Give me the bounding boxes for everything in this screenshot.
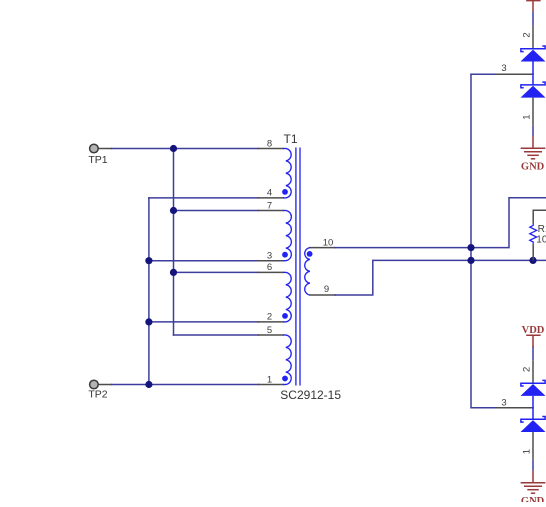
wire VDD stem top <box>532 12 534 26</box>
junction node F <box>145 381 152 388</box>
wire pin 10 net <box>335 198 546 248</box>
diode pair pin 2 stub top <box>532 26 534 49</box>
svg-text:7: 7 <box>267 200 272 211</box>
wire top clamp pin3 <box>471 73 497 75</box>
svg-text:VDD: VDD <box>522 325 545 336</box>
svg-text:SC2912-15: SC2912-15 <box>280 388 341 402</box>
wire GND stem top <box>532 125 534 136</box>
T1 pin 6 stub <box>259 271 284 273</box>
T1 pin 8 stub <box>259 148 284 150</box>
diode D1 bottom <box>521 380 545 386</box>
test point TP1 <box>90 144 99 153</box>
T1 winding 10-9 <box>305 248 310 295</box>
svg-text:2: 2 <box>522 367 533 372</box>
wire T1 pin 2 <box>149 321 259 323</box>
svg-text:TP2: TP2 <box>88 388 107 400</box>
wire T1 pin 6 <box>174 271 259 273</box>
wire clamp bus vertical <box>471 74 497 408</box>
power symbol VDD (top, clipped) <box>526 1 540 12</box>
svg-text:9: 9 <box>324 284 329 295</box>
diode pair pin 1 stub bottom <box>532 432 534 460</box>
svg-text:GND: GND <box>521 162 545 173</box>
T1 pin 4 stub <box>259 197 284 199</box>
test point TP2 <box>90 380 99 389</box>
diode pair pin 1 stub top <box>532 98 534 126</box>
svg-text:GND: GND <box>521 496 545 502</box>
junction node E <box>145 318 152 325</box>
wire T1 pin 5 <box>174 334 259 336</box>
wire GND stem bottom <box>532 460 534 471</box>
svg-text:3: 3 <box>267 251 272 262</box>
junction node D <box>145 257 152 264</box>
junction node A <box>170 145 177 152</box>
T1 pin 5 stub <box>259 334 284 336</box>
svg-text:2: 2 <box>267 312 272 323</box>
T1 pin 2 stub <box>259 321 284 323</box>
junction node G <box>467 244 474 251</box>
resistor R1 <box>533 210 546 224</box>
T1 winding 5-1 <box>286 335 291 385</box>
svg-text:6: 6 <box>267 262 272 273</box>
wire diode midpoint top <box>532 62 534 85</box>
svg-text:10: 10 <box>323 237 334 248</box>
junction node H <box>467 257 474 264</box>
wire TP1 to T1 pin 8 <box>99 148 112 150</box>
svg-text:1: 1 <box>522 115 533 120</box>
T1 winding 8-4 <box>286 149 291 198</box>
diode D1 top <box>521 46 545 52</box>
power symbol VDD (bottom) <box>526 335 540 347</box>
junction node I <box>529 257 536 264</box>
T1 pin 10 stub <box>310 247 335 249</box>
transformer T1 core <box>296 148 300 386</box>
svg-text:2: 2 <box>522 32 533 37</box>
svg-text:T1: T1 <box>284 132 298 146</box>
svg-text:5: 5 <box>267 325 272 336</box>
diode pair pin 2 stub bottom <box>532 360 534 383</box>
junction node B <box>170 207 177 214</box>
svg-text:1: 1 <box>267 374 272 385</box>
wire pin 9 net <box>335 260 546 295</box>
wire bus A vertical <box>173 149 175 336</box>
wire TP2 to T1 pin 1 <box>99 384 112 386</box>
wire diode midpoint bottom <box>532 396 534 419</box>
svg-text:1: 1 <box>522 449 533 454</box>
ground symbol bottom <box>521 471 546 494</box>
diode D2 top <box>521 82 545 88</box>
diode D2 bottom <box>521 417 545 423</box>
wire bus B vertical <box>148 198 150 385</box>
T1 winding 6-2 <box>286 272 291 322</box>
wire T1 pin 4 <box>149 197 259 199</box>
wire bottom clamp pin3 <box>497 407 533 409</box>
wire T1 pin 3 <box>149 260 259 262</box>
svg-text:TP1: TP1 <box>88 154 107 166</box>
junction node C <box>170 269 177 276</box>
svg-text:3: 3 <box>501 398 506 409</box>
ground symbol top <box>521 136 546 159</box>
svg-text:4: 4 <box>267 188 272 199</box>
wire T1 pin 7 <box>174 210 259 212</box>
T1 pin 3 stub <box>259 260 284 262</box>
T1 pin 7 stub <box>259 210 284 212</box>
T1 pin 1 stub <box>259 384 284 386</box>
T1 winding 7-3 <box>286 211 292 261</box>
svg-text:8: 8 <box>267 138 272 149</box>
svg-text:100: 100 <box>536 234 546 245</box>
svg-text:3: 3 <box>501 63 506 74</box>
T1 pin 9 stub <box>310 294 335 296</box>
wire VDD stem bottom <box>532 346 534 360</box>
